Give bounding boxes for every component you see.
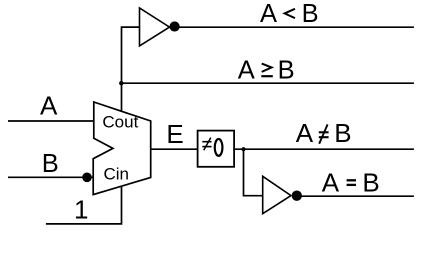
- wire E (U1 output to comparator box): [151, 148, 198, 150]
- wire output A >= B: [122, 82, 414, 84]
- wire output A = B: [297, 195, 414, 197]
- label A < B : less-than sign: [285, 9, 295, 18]
- wire output A < B: [170, 26, 414, 28]
- wire constant 1: [46, 186, 122, 224]
- junction dot after comparator box: [241, 147, 245, 151]
- label !=0 : not-equal lower bar: [202, 146, 211, 148]
- svg-text:Cout: Cout: [102, 112, 138, 131]
- label !=0 : zero digit: [215, 139, 223, 156]
- svg-text:B: B: [334, 118, 351, 148]
- svg-text:A: A: [322, 167, 340, 197]
- label A != B : not-equal lower bar: [319, 136, 329, 138]
- wire input B: [8, 176, 94, 178]
- svg-text:B: B: [362, 167, 379, 197]
- svg-text:E: E: [166, 119, 183, 149]
- label !=0 : not-equal slash: [204, 138, 211, 151]
- label A != B : not-equal upper bar: [319, 131, 329, 133]
- svg-text:B: B: [42, 150, 59, 178]
- svg-text:A: A: [40, 91, 58, 121]
- label A >= B : underbar of greater-equal sign: [261, 75, 273, 77]
- svg-text:1: 1: [74, 195, 88, 225]
- inverter U2: [140, 8, 170, 46]
- svg-text:Cin: Cin: [104, 165, 130, 184]
- wire input A: [8, 120, 94, 122]
- label A >= B : greater-than chevron: [262, 64, 272, 72]
- label !=0 : not-equal upper bar: [202, 141, 211, 143]
- comparator box U3 (not equal zero): [198, 131, 235, 167]
- junction dot on B input: [82, 173, 92, 183]
- label A = B : equals upper bar: [347, 179, 356, 181]
- svg-text:B: B: [302, 0, 319, 28]
- wire output A != B: [234, 148, 414, 150]
- subtractor U1 (ALU shape): [93, 102, 151, 195]
- inverter U4 output bubble (filled): [292, 191, 302, 201]
- wire Cout (from U1 top up to inverter U2): [122, 27, 140, 112]
- svg-text:A: A: [238, 57, 255, 85]
- svg-text:B: B: [278, 57, 295, 85]
- wire from junction down to inverter U4: [244, 149, 263, 196]
- label A != B : not-equal slash: [319, 124, 327, 143]
- label A = B : equals lower bar: [347, 184, 356, 186]
- inverter U4: [263, 176, 291, 213]
- junction node on Cout wire (A>=B tap): [119, 81, 123, 85]
- svg-text:A: A: [296, 118, 314, 148]
- inverter U2 output bubble (filled): [170, 21, 180, 31]
- svg-text:A: A: [260, 0, 277, 28]
